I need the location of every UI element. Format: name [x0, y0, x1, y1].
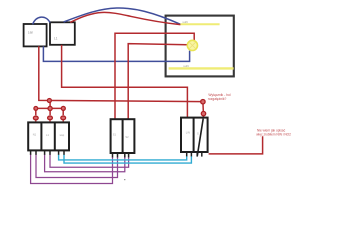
- svg-text:S: S: [197, 131, 199, 135]
- svg-text:S2: S2: [125, 135, 129, 139]
- svg-text:L/N: L/N: [186, 131, 190, 135]
- svg-text:S1: S1: [113, 132, 117, 136]
- svg-text:więc zrobiłem NIN i NO2: więc zrobiłem NIN i NO2: [256, 132, 291, 136]
- svg-text:Lan: Lan: [28, 30, 34, 34]
- svg-text:L1: L1: [54, 37, 58, 41]
- svg-text:wsp: wsp: [60, 134, 65, 137]
- svg-text:sufit: sufit: [182, 20, 188, 24]
- svg-text:rozgałęźnik?: rozgałęźnik?: [208, 97, 227, 101]
- svg-text:N1: N1: [33, 132, 37, 136]
- svg-text:sufit: sufit: [183, 64, 189, 68]
